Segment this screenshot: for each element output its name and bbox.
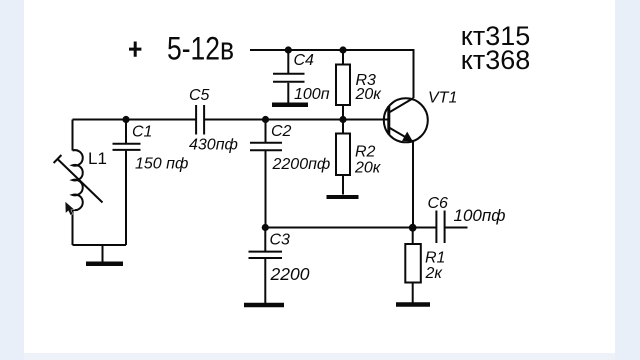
- svg-text:C1: C1: [132, 124, 152, 141]
- svg-text:C3: C3: [270, 232, 291, 249]
- svg-text:150 пф: 150 пф: [135, 156, 188, 173]
- svg-text:5-12в: 5-12в: [167, 31, 234, 67]
- svg-text:C5: C5: [189, 87, 210, 104]
- svg-text:100пф: 100пф: [454, 206, 506, 225]
- svg-text:C2: C2: [271, 123, 292, 140]
- svg-text:2200: 2200: [270, 264, 310, 284]
- svg-text:R2: R2: [355, 144, 376, 161]
- svg-text:100п: 100п: [294, 86, 330, 103]
- svg-text:2к: 2к: [425, 265, 444, 282]
- svg-text:20к: 20к: [355, 86, 383, 103]
- svg-text:кт368: кт368: [461, 45, 531, 75]
- svg-text:430пф: 430пф: [189, 137, 238, 154]
- svg-text:C6: C6: [428, 195, 449, 212]
- svg-text:R1: R1: [425, 250, 445, 267]
- svg-text:2200пф: 2200пф: [272, 156, 331, 173]
- svg-text:C4: C4: [294, 52, 315, 69]
- svg-text:L1: L1: [88, 149, 107, 168]
- svg-text:20к: 20к: [354, 160, 382, 177]
- svg-text:VT1: VT1: [428, 90, 457, 107]
